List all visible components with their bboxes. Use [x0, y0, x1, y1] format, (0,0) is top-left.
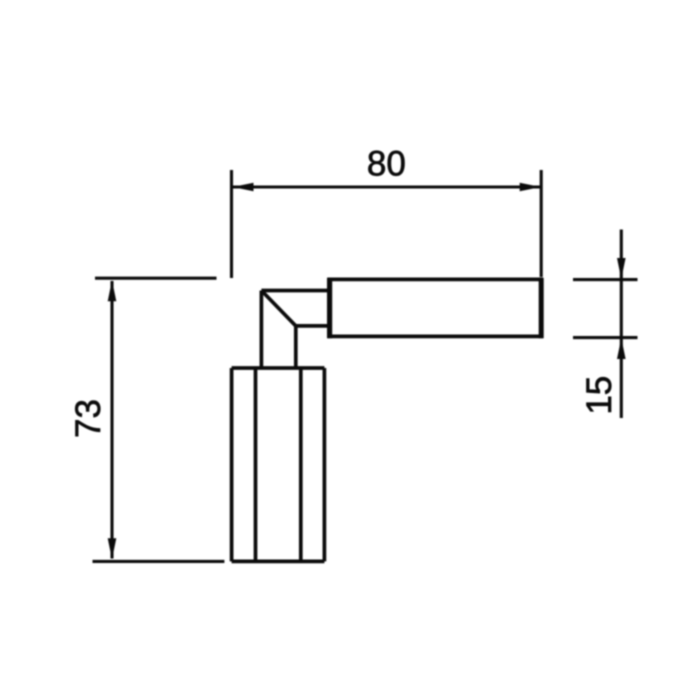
elbow inner vertical edge [294, 326, 298, 368]
neck top edge [261, 289, 327, 293]
svg-text:73: 73 [69, 399, 108, 438]
post top edge [232, 366, 325, 370]
handle grip right end cap (thick) [539, 278, 544, 338]
extension line top of 15 (grip top) [573, 278, 638, 281]
extension line right of 80 (grip right end) [540, 170, 543, 277]
elbow diagonal chamfer [261, 291, 295, 326]
extension line top of 73 [95, 277, 217, 280]
arrowhead bottom of dimension 73 [108, 538, 117, 559]
extension line bottom of 15 (grip bottom) [573, 336, 638, 339]
post left edge [230, 368, 234, 561]
dimension line 80 [233, 185, 540, 188]
post inner left contour line [254, 368, 258, 561]
dimension line 15 [620, 230, 623, 419]
extension line bottom of 73 [93, 560, 225, 563]
arrowhead top of dimension 15 (points down) [617, 258, 626, 279]
post right edge [323, 368, 327, 561]
elbow outer vertical edge [260, 291, 264, 369]
handle grip left end cap (thick) [327, 278, 332, 339]
arrowhead right of dimension 80 [520, 183, 541, 192]
handle grip bottom edge [328, 335, 544, 339]
svg-text:80: 80 [367, 145, 406, 184]
post bottom edge [232, 560, 325, 564]
arrowhead bottom of dimension 15 (points up) [617, 338, 626, 359]
post inner right contour line [299, 368, 303, 561]
neck bottom edge [296, 324, 328, 328]
svg-text:15: 15 [580, 376, 619, 415]
dimension line 73 [110, 281, 113, 559]
extension line left of 80 (post left edge) [230, 170, 233, 278]
arrowhead top of dimension 73 [108, 280, 117, 301]
handle grip top edge [328, 278, 544, 282]
arrowhead left of dimension 80 [233, 183, 254, 192]
